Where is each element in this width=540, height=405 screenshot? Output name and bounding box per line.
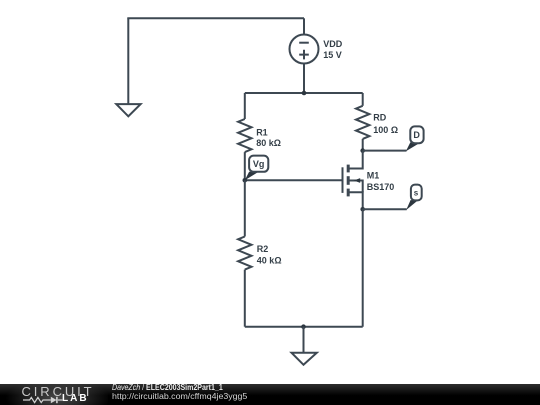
- wire gate (Vg to M1 gate): [245, 179, 343, 181]
- wire top (GND1 to VDD): [127, 17, 304, 19]
- ground GND2 (bottom): [292, 327, 317, 365]
- node s junction dot: [360, 207, 365, 212]
- wire RD top lead: [362, 93, 364, 106]
- svg-text:BS170: BS170: [367, 182, 395, 192]
- wire drain node to D flag: [363, 150, 407, 152]
- svg-text:15 V: 15 V: [323, 50, 342, 60]
- wire rail (R1 top to RD top): [245, 92, 363, 94]
- voltage source VDD: [290, 18, 319, 93]
- wire bottom rail: [245, 326, 363, 328]
- footer bar: [0, 384, 540, 405]
- wire R1 to node Vg: [244, 152, 246, 180]
- svg-text:100 Ω: 100 Ω: [373, 125, 398, 135]
- svg-text:VDD: VDD: [323, 39, 343, 49]
- wire Vg node to R2: [244, 180, 246, 236]
- node junction VDD rail: [302, 91, 307, 96]
- resistor R1: [238, 119, 251, 152]
- CircuitLab logo: [0, 384, 108, 405]
- svg-text:D: D: [413, 130, 420, 140]
- svg-text:R1: R1: [256, 128, 268, 138]
- ground GND1 (top left): [116, 18, 140, 116]
- wire source node to bottom rail: [362, 209, 364, 326]
- resistor RD: [356, 106, 369, 139]
- svg-text:40 kΩ: 40 kΩ: [257, 255, 282, 265]
- flag Vg: [245, 156, 269, 181]
- svg-text:Vg: Vg: [253, 159, 265, 169]
- svg-text:R2: R2: [257, 244, 269, 254]
- node ground junction: [301, 324, 306, 329]
- svg-text:s: s: [414, 189, 419, 198]
- footer attribution text: [112, 383, 223, 392]
- wire RD to drain node: [362, 139, 364, 151]
- wire source node to s flag: [363, 208, 407, 210]
- node Vg junction dot: [243, 178, 248, 183]
- flag D: [406, 126, 424, 151]
- node D junction dot: [360, 148, 365, 153]
- flag s: [406, 185, 421, 210]
- wire rail to R1: [244, 93, 246, 119]
- svg-text:RD: RD: [373, 112, 386, 122]
- svg-text:M1: M1: [367, 170, 380, 180]
- wire R2 to bottom rail: [244, 270, 246, 327]
- transistor M1: [343, 151, 363, 210]
- svg-text:80 kΩ: 80 kΩ: [256, 138, 281, 148]
- resistor R2: [238, 237, 251, 270]
